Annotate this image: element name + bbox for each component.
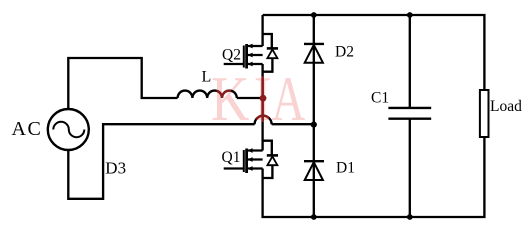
svg-text:C1: C1 — [371, 90, 389, 107]
svg-text:AC: AC — [12, 118, 43, 140]
svg-text:D2: D2 — [335, 44, 354, 61]
svg-text:Q2: Q2 — [222, 47, 241, 64]
svg-text:Load: Load — [490, 98, 522, 115]
svg-text:L: L — [202, 69, 212, 86]
svg-text:Q1: Q1 — [222, 149, 241, 166]
svg-text:D3: D3 — [105, 159, 126, 178]
svg-text:D1: D1 — [336, 160, 355, 177]
